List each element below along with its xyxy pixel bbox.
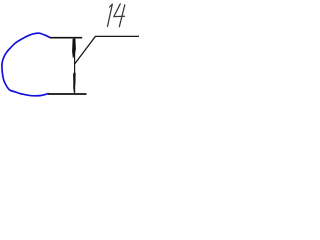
part outline (blue open circular loop) xyxy=(2,33,50,96)
dimension text 14 xyxy=(108,4,125,27)
extension line bottom xyxy=(48,93,87,95)
arrowhead lower xyxy=(73,72,76,93)
extension line top xyxy=(50,37,82,39)
arrowhead upper xyxy=(72,39,76,59)
dimension line vertical xyxy=(74,38,76,94)
leader line xyxy=(75,36,139,64)
